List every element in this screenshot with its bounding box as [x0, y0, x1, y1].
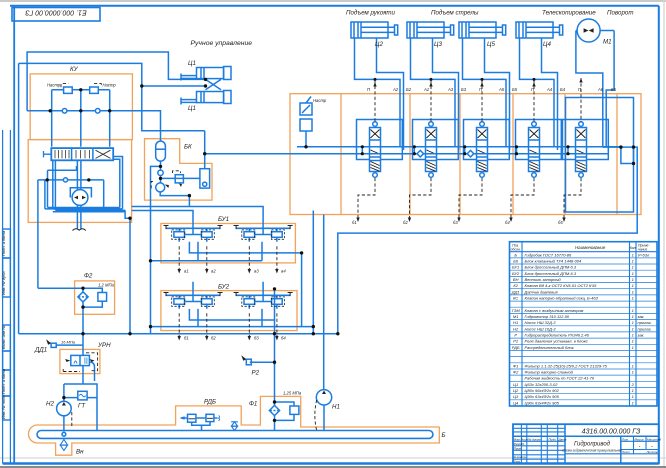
svg-text:Насос НШ 32Д-3: Насос НШ 32Д-3 [525, 320, 557, 325]
svg-text:Лит.: Лит. [621, 437, 629, 441]
svg-text:Ц80х 56х4Ф2х 902: Ц80х 56х4Ф2х 902 [525, 388, 560, 393]
svg-text:Ф2: Ф2 [513, 370, 519, 375]
svg-text:2: 2 [631, 382, 635, 387]
svg-text:РДБ: РДБ [204, 399, 216, 406]
svg-text:Ц1: Ц1 [513, 382, 518, 387]
svg-text:Насос НШ 10Д-3: Насос НШ 10Д-3 [525, 326, 557, 331]
svg-text:БУ1: БУ1 [512, 265, 519, 270]
svg-text:Ц1: Ц1 [188, 60, 196, 67]
svg-text:А6: А6 [597, 87, 604, 92]
svg-text:Гидрораспределитель РХ346.2.46: Гидрораспределитель РХ346.2.46 [525, 333, 590, 338]
svg-text:1: 1 [632, 363, 634, 368]
svg-text:б5: б5 [558, 220, 563, 225]
svg-text:б2: б2 [403, 220, 408, 225]
svg-text:ГЗМ: ГЗМ [512, 308, 521, 313]
svg-text:1: 1 [632, 296, 634, 301]
svg-text:Гидромотор 310.112-00: Гидромотор 310.112-00 [525, 314, 570, 319]
svg-text:б1: б1 [352, 220, 357, 225]
svg-text:Наименование: Наименование [575, 245, 606, 250]
svg-text:Разраб.: Разраб. [514, 442, 525, 446]
svg-text:Н1: Н1 [513, 320, 518, 325]
svg-text:БУ1: БУ1 [218, 216, 229, 223]
svg-text:б3: б3 [254, 336, 259, 341]
svg-text:1: 1 [632, 252, 634, 257]
svg-text:А1: А1 [423, 87, 429, 92]
svg-text:Вентиль запорный: Вентиль запорный [525, 277, 562, 282]
svg-text:Инв. № дубл.: Инв. № дубл. [1, 270, 6, 295]
svg-text:Б4: Б4 [560, 87, 566, 92]
svg-text:Взам. инв №: Взам. инв № [1, 325, 6, 349]
svg-text:1: 1 [632, 308, 634, 313]
svg-text:Клапан Вд 4-к ОСТ2 КЧ5-01 ОСТ2: Клапан Вд 4-к ОСТ2 КЧ5-01 ОСТ2 КЧ5 [525, 283, 598, 288]
svg-text:а2: а2 [211, 269, 216, 274]
svg-text:1: 1 [632, 333, 634, 338]
svg-text:1: 1 [632, 345, 634, 350]
svg-text:4316.00.00.000 ГЗ: 4316.00.00.000 ГЗ [582, 429, 641, 436]
svg-text:1: 1 [632, 271, 634, 276]
svg-text:обозн.: обозн. [511, 248, 521, 252]
svg-text:Ц4: Ц4 [513, 400, 519, 405]
svg-text:А4: А4 [546, 87, 553, 92]
svg-text:а1: а1 [184, 269, 189, 274]
svg-text:Рабочая жидкость по ГОСТ 22-41: Рабочая жидкость по ГОСТ 22-41-76 [525, 376, 595, 381]
svg-text:чание: чание [638, 248, 647, 252]
svg-text:Б2: Б2 [406, 87, 412, 92]
svg-text:М1: М1 [513, 314, 519, 319]
svg-text:б3: б3 [453, 220, 458, 225]
svg-text:Гидропривод: Гидропривод [574, 442, 611, 448]
svg-text:1: 1 [632, 258, 634, 263]
svg-text:1: 1 [632, 283, 634, 288]
svg-text:Лист: Лист [621, 450, 630, 454]
svg-text:а3: а3 [254, 269, 259, 274]
svg-text:Настр: Настр [103, 83, 117, 88]
svg-text:Масштаб: Масштаб [647, 437, 661, 441]
svg-text:Н2: Н2 [513, 326, 519, 331]
svg-text:Б6: Б6 [611, 87, 617, 92]
svg-text:Пров.: Пров. [514, 446, 522, 450]
svg-text:Ц2: Ц2 [375, 41, 383, 48]
svg-text:Дата: Дата [558, 437, 567, 441]
svg-text:Блок дроссельный ДПМ-6.3: Блок дроссельный ДПМ-6.3 [525, 271, 577, 276]
svg-text:Поворот: Поворот [607, 10, 634, 17]
svg-text:1: 1 [632, 277, 634, 282]
svg-text:Ц1: Ц1 [188, 105, 196, 112]
svg-text:Ц63х 32х200-3-02: Ц63х 32х200-3-02 [525, 382, 559, 387]
svg-text:Подп. и дата: Подп. и дата [1, 368, 6, 394]
svg-text:ГТ: ГТ [78, 403, 86, 410]
svg-text:А5: А5 [498, 87, 505, 92]
svg-text:Настр: Настр [313, 98, 327, 103]
svg-text:БУ2: БУ2 [512, 271, 520, 276]
svg-text:Б5: Б5 [512, 87, 518, 92]
svg-text:прилаг.: прилаг. [638, 320, 652, 325]
svg-text:Настр: Настр [47, 83, 61, 88]
svg-text:б2: б2 [211, 336, 216, 341]
svg-text:-: - [639, 444, 641, 450]
svg-text:Р2: Р2 [513, 339, 519, 344]
svg-text:Подп. и дата: Подп. и дата [1, 230, 6, 256]
svg-text:Гидробак ГОСТ 16770-86: Гидробак ГОСТ 16770-86 [525, 252, 573, 257]
svg-text:Телескопирование: Телескопирование [542, 10, 596, 17]
svg-text:Ц90х 63х4Ф2х 905: Ц90х 63х4Ф2х 905 [525, 394, 560, 399]
svg-text:А3: А3 [447, 87, 454, 92]
svg-text:Р2: Р2 [252, 370, 260, 377]
svg-text:1: 1 [632, 370, 634, 375]
svg-text:1: 1 [632, 394, 634, 399]
svg-text:Распределительный блок: Распределительный блок [525, 345, 575, 350]
svg-text:Масса: Масса [635, 437, 644, 441]
svg-text:Ручное управление: Ручное управление [191, 40, 253, 47]
svg-text:Блок клапанный ТУ4 1448-004: Блок клапанный ТУ4 1448-004 [525, 258, 583, 263]
svg-text:Клапан с воздушным затвором: Клапан с воздушным затвором [525, 308, 584, 313]
svg-text:Р: Р [514, 333, 517, 338]
svg-text:Ф1: Ф1 [513, 363, 518, 368]
svg-text:А2: А2 [392, 87, 399, 92]
svg-text:16 МПа: 16 МПа [61, 340, 76, 345]
svg-text:Блок дроссельный ДПМ-6.3: Блок дроссельный ДПМ-6.3 [525, 265, 577, 270]
svg-text:Утв.: Утв. [514, 460, 521, 464]
svg-text:1,2 МПа: 1,2 МПа [98, 283, 115, 288]
svg-text:Е1. 000.0000.00 ГЗ: Е1. 000.0000.00 ГЗ [25, 9, 87, 16]
svg-text:БУ2: БУ2 [218, 284, 230, 291]
svg-text:Б3: Б3 [461, 87, 467, 92]
svg-text:V=63л: V=63л [638, 252, 650, 257]
svg-text:Подъем стрелы: Подъем стрелы [431, 10, 479, 17]
svg-text:Изм Лист: Изм Лист [514, 437, 529, 441]
svg-text:зак.: зак. [637, 333, 645, 338]
svg-text:РДБ: РДБ [512, 345, 520, 350]
svg-text:зак.: зак. [637, 314, 645, 319]
svg-text:1: 1 [632, 339, 634, 344]
svg-text:Ф1: Ф1 [249, 401, 257, 408]
svg-text:К2: К2 [513, 283, 518, 288]
svg-text:Ц3: Ц3 [434, 41, 442, 48]
svg-text:1,25 МПа: 1,25 МПа [283, 391, 302, 396]
svg-text:Подъем рукояти: Подъем рукояти [346, 10, 396, 17]
svg-text:ДД1: ДД1 [511, 289, 520, 294]
svg-text:Подп.: Подп. [549, 437, 557, 441]
svg-text:Вн: Вн [76, 449, 84, 456]
svg-text:Н2: Н2 [46, 401, 54, 408]
svg-text:1: 1 [632, 326, 634, 331]
svg-text:Ц4: Ц4 [543, 41, 551, 48]
svg-text:Фильтр напорно-сливной: Фильтр напорно-сливной [525, 370, 574, 375]
svg-text:Б: Б [442, 432, 446, 439]
svg-text:Б6: Б6 [513, 258, 519, 263]
svg-text:Б: Б [514, 252, 517, 257]
svg-text:б4: б4 [281, 336, 286, 341]
svg-text:-: - [651, 444, 653, 450]
svg-text:Клапан напорно-обратный секц.: Клапан напорно-обратный секц. Б-463 [525, 296, 599, 301]
svg-text:1: 1 [632, 314, 634, 319]
svg-text:1: 1 [632, 265, 634, 270]
svg-text:Ц90х 63х4Ф2х 905: Ц90х 63х4Ф2х 905 [525, 400, 560, 405]
svg-text:Фильтр 1.1.32-25(10)-25/0,2 ГО: Фильтр 1.1.32-25(10)-25/0,2 ГОСТ 21329-7… [525, 363, 608, 368]
svg-text:1: 1 [632, 289, 634, 294]
svg-text:М1: М1 [603, 39, 612, 46]
svg-text:УРН: УРН [97, 342, 111, 349]
svg-text:1: 1 [632, 388, 634, 393]
svg-text:1: 1 [632, 320, 634, 325]
svg-text:б4: б4 [505, 220, 510, 225]
svg-text:Инв. № подл.: Инв. № подл. [1, 394, 6, 419]
svg-text:КУ: КУ [70, 66, 79, 73]
svg-text:б1: б1 [184, 336, 189, 341]
svg-text:П: П [367, 87, 371, 92]
svg-text:ДД1: ДД1 [34, 347, 47, 354]
svg-text:Датчик давления: Датчик давления [524, 289, 559, 294]
svg-text:Листов: Листов [646, 450, 658, 454]
svg-text:Ц3: Ц3 [513, 394, 519, 399]
svg-text:БК: БК [184, 144, 192, 151]
svg-text:а4: а4 [281, 269, 286, 274]
svg-text:Схема гидравлическая принципиа: Схема гидравлическая принципиальная [562, 449, 622, 453]
svg-text:Кол: Кол [630, 246, 636, 250]
svg-text:Ф2: Ф2 [84, 273, 93, 280]
svg-text:КС: КС [513, 296, 518, 301]
svg-text:Реле давления устанавл. в блок: Реле давления устанавл. в блоке [525, 339, 589, 344]
svg-text:Ц2: Ц2 [513, 388, 519, 393]
svg-text:Ц5: Ц5 [487, 41, 495, 48]
svg-text:Н1: Н1 [332, 404, 340, 411]
svg-text:№ докум.: № докум. [528, 437, 541, 441]
svg-text:ВН: ВН [513, 277, 519, 282]
svg-text:прилаг.: прилаг. [638, 326, 652, 331]
svg-text:1: 1 [632, 400, 634, 405]
